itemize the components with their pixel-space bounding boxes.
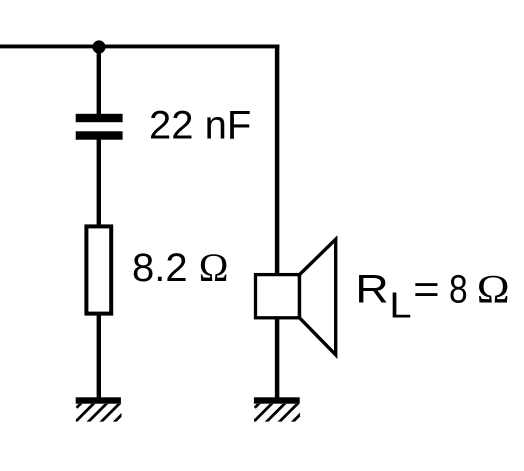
ground right [251, 397, 312, 424]
node junction dot [92, 40, 105, 53]
wire capacitor to resistor [97, 139, 101, 226]
wire capacitor top lead [97, 47, 101, 115]
svg-text:8.2 Ω: 8.2 Ω [132, 245, 228, 290]
svg-text:22 nF: 22 nF [149, 103, 251, 147]
ground left [73, 397, 134, 424]
label RL = 8 ohm [355, 267, 510, 326]
svg-text:R: R [355, 267, 389, 311]
speaker horn [300, 239, 336, 354]
wire speaker to ground [275, 317, 280, 399]
capacitor C1 22 nF plates [76, 114, 123, 140]
svg-text:Ω: Ω [477, 268, 510, 313]
svg-text:8: 8 [449, 267, 468, 311]
svg-text:=: = [413, 267, 440, 312]
svg-text:L: L [389, 286, 411, 326]
speaker RL body square [256, 275, 300, 318]
wire right vertical from top corner to speaker [275, 45, 280, 276]
wire top horizontal from left edge to right corner [0, 44, 279, 48]
resistor 8.2 ohm body [86, 226, 111, 313]
wire resistor to ground [97, 314, 101, 399]
